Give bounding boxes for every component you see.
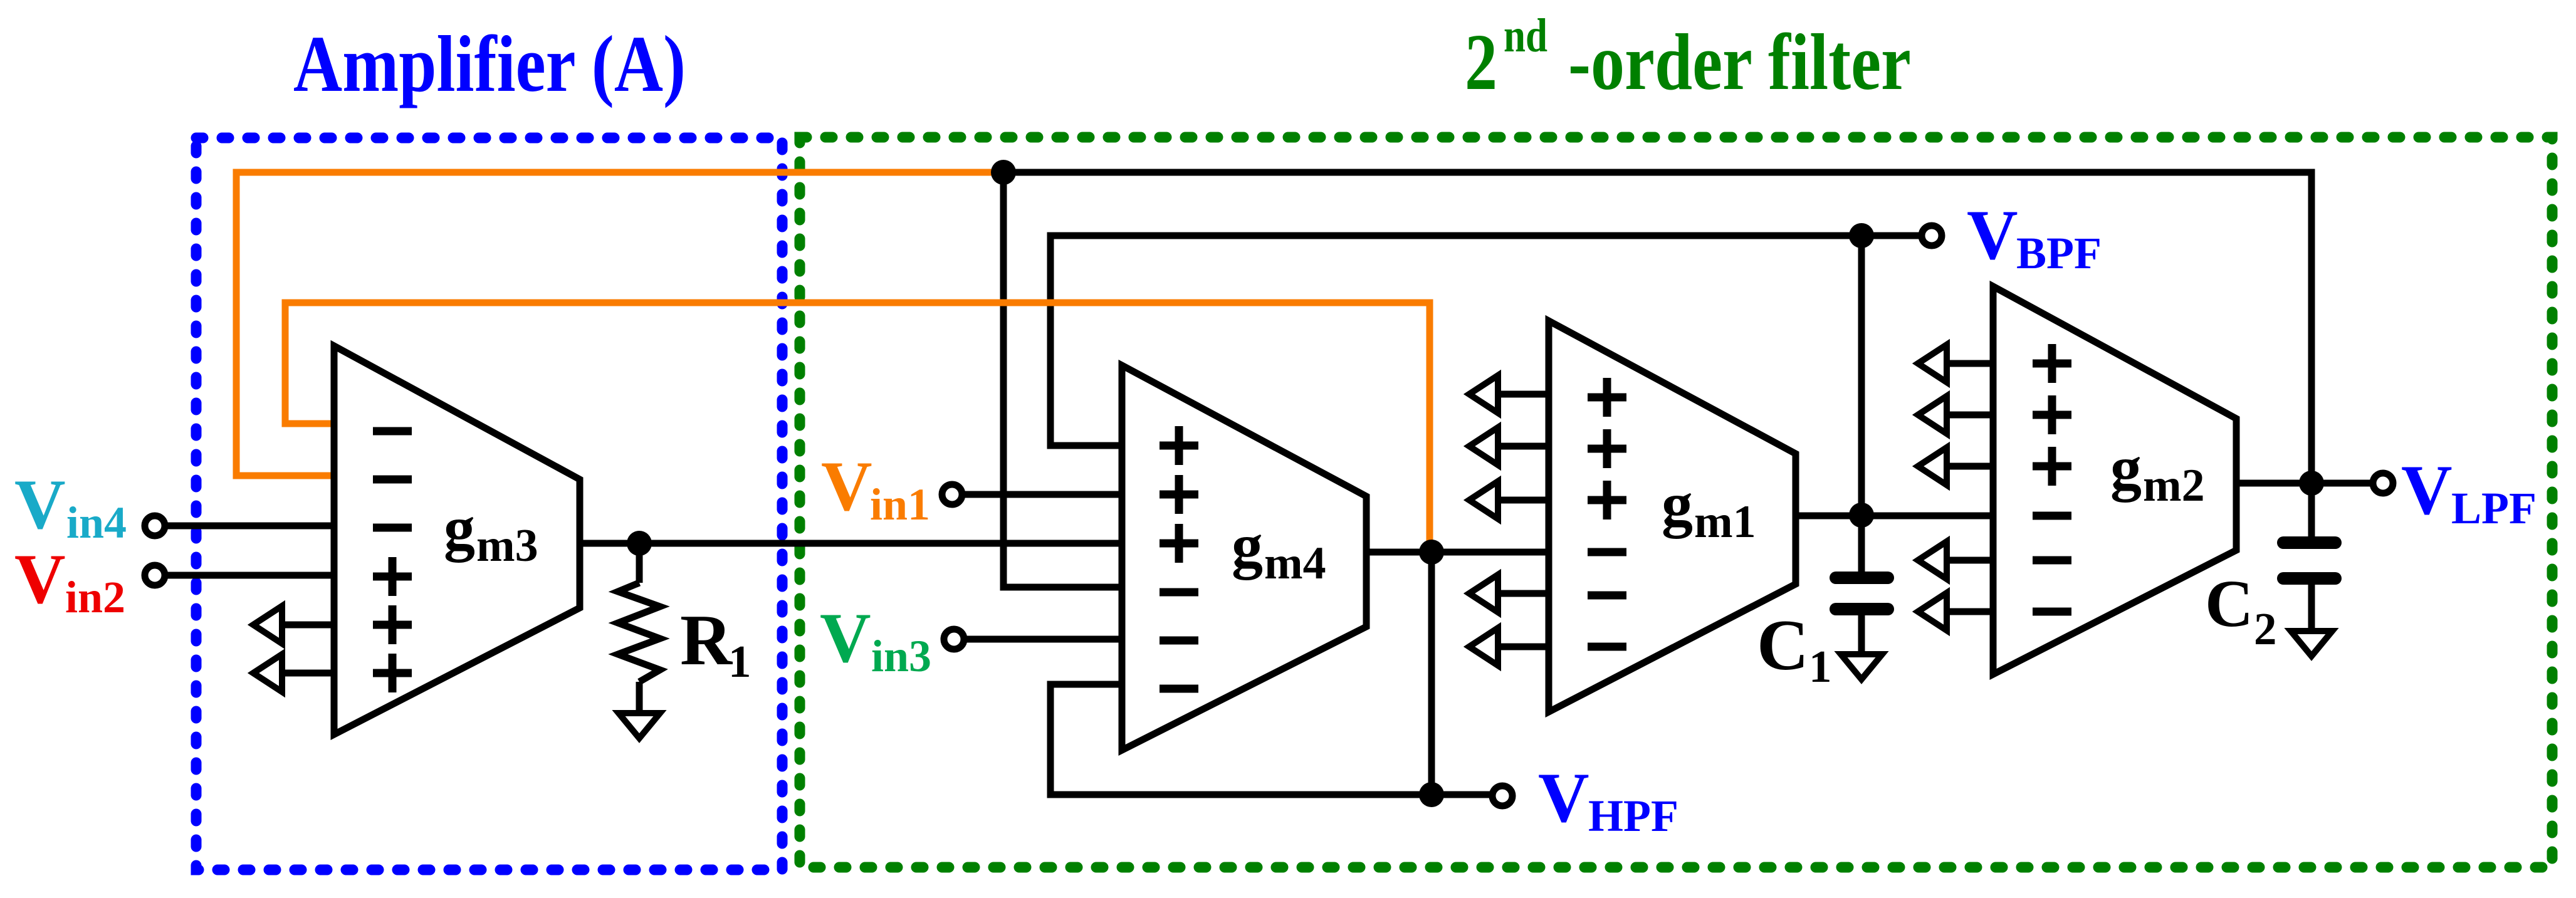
gm2 input arrow row6 [1918,593,1993,630]
op-amp gm4 [1122,365,1366,750]
terminal VHPF [1492,786,1512,806]
terminal VLPF [2373,473,2393,493]
svg-text:V: V [2401,451,2453,530]
wire from top node down to gm4 row4 [1003,172,1122,587]
svg-text:g: g [2110,433,2142,503]
svg-text:Amplifier (A): Amplifier (A) [293,19,686,108]
svg-text:2: 2 [2254,603,2277,654]
wire Vin1 stub [962,491,1122,498]
wire VBPF feedback to gm4 row1 [1050,236,1922,446]
wire Vin2 stub [165,572,334,579]
svg-text:BPF: BPF [2016,228,2102,278]
svg-text:2: 2 [1465,18,1497,107]
svg-text:HPF: HPF [1588,791,1678,841]
svg-text:R: R [680,600,733,680]
svg-text:m1: m1 [1694,496,1756,548]
terminal Vin3 [944,629,964,649]
gm1 input arrow row2 [1469,427,1549,465]
op-amp gm2 [1993,286,2236,674]
wire gm4 output to gm1 row4 [1366,549,1549,556]
op-amp gm3 [334,346,580,734]
gm1 input arrow row5 [1469,575,1549,612]
gm2 input arrow row2 [1918,396,1993,434]
svg-text:LPF: LPF [2451,483,2537,533]
wire gm2 output to VLPF [2236,480,2373,487]
svg-text:V: V [14,540,66,619]
terminal Vin1 [942,484,962,504]
svg-text:g: g [1232,511,1263,580]
terminal Vin2 [145,565,165,585]
op-amp gm1 [1549,321,1796,712]
wire orange VLPF feedback to gm3 minus row2 [236,172,1003,476]
wire HPF node vertical [1428,552,1435,795]
svg-text:g: g [444,493,475,563]
capacitor C2 [2205,483,2342,656]
svg-text:-order filter: -order filter [1568,18,1911,107]
wire Vin3 stub [964,636,1122,643]
svg-text:in3: in3 [871,631,931,681]
wire VBPF node down to C1 node [1858,236,1865,515]
Amplifier (A) dashed box [196,138,782,870]
junction node top [991,160,1016,185]
gm1 input arrow row1 [1469,375,1549,413]
wire top VLPF feedback (black) [1003,172,2312,483]
svg-text:m3: m3 [476,520,538,572]
wire gm1 output to gm2 row4 [1796,513,1993,519]
gm2 input arrow row3 [1918,447,1993,485]
svg-text:1: 1 [728,636,751,687]
gm3 input arrow row6 [253,654,334,692]
svg-text:in4: in4 [66,498,127,548]
svg-text:1: 1 [1809,641,1832,692]
wire Vin4 stub [165,523,334,530]
gm1 input arrow row3 [1469,481,1549,519]
svg-text:in1: in1 [870,479,930,530]
gm3 input arrow row5 [253,606,334,644]
svg-text:in2: in2 [65,572,125,622]
terminal VBPF [1922,226,1942,246]
svg-text:nd: nd [1504,9,1547,62]
svg-text:C: C [2205,567,2253,641]
svg-text:V: V [1538,759,1589,837]
svg-text:m2: m2 [2143,460,2205,511]
wire gm3 output to gm4 row3 [580,540,1122,547]
wire HPF loop to gm4 row6 [1050,684,1492,795]
gm1 input arrow row6 [1469,628,1549,666]
svg-text:V: V [14,466,66,544]
svg-text:V: V [1967,196,2018,274]
wire orange HPF node to gm3 minus row1 [285,303,1430,551]
junction node HPF bottom [1419,782,1444,807]
svg-text:m4: m4 [1264,538,1326,589]
gm2 input arrow row1 [1918,345,1993,382]
svg-text:C: C [1757,605,1809,685]
gm2 input arrow row5 [1918,541,1993,579]
junction node VBPF [1849,223,1874,248]
resistor R1 [618,543,751,738]
junction node HPF top [1419,540,1444,565]
svg-text:g: g [1662,469,1693,539]
2nd-order filter dashed box [800,137,2552,867]
capacitor C1 [1757,515,1894,692]
svg-text:V: V [821,447,872,526]
junction node VLPF [2299,471,2324,496]
svg-text:V: V [820,599,871,677]
junction node R1 [627,531,652,556]
junction node C1 [1849,503,1874,528]
terminal Vin4 [145,516,165,536]
